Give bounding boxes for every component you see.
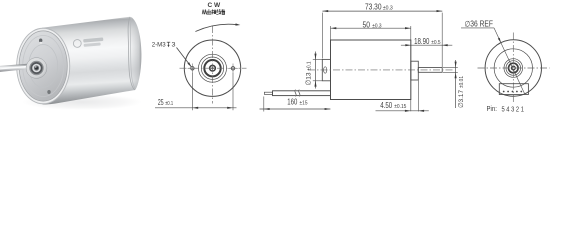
svg-text:C W: C W (208, 3, 221, 9)
svg-text:18.90: 18.90 (414, 37, 430, 46)
svg-text:50: 50 (363, 21, 371, 30)
svg-text:±0.3: ±0.3 (372, 24, 381, 30)
svg-text:±0.01: ±0.01 (459, 76, 465, 88)
svg-text:±0.5: ±0.5 (431, 40, 440, 46)
svg-text:3: 3 (172, 42, 176, 49)
svg-text:25: 25 (158, 98, 164, 107)
svg-text:∅36 REF: ∅36 REF (465, 20, 493, 29)
svg-text:160: 160 (287, 98, 297, 107)
svg-text:73.30: 73.30 (365, 2, 382, 11)
svg-text:∅3.17: ∅3.17 (458, 90, 465, 108)
svg-text:±0.3: ±0.3 (383, 5, 393, 11)
svg-text:±0.1: ±0.1 (306, 61, 312, 70)
svg-text:Pin:: Pin: (487, 106, 497, 113)
svg-text:±15: ±15 (300, 101, 308, 107)
svg-text:4.50: 4.50 (380, 101, 392, 110)
svg-text:5 4 3 2 1: 5 4 3 2 1 (502, 106, 524, 113)
svg-text:∅13: ∅13 (305, 72, 312, 85)
svg-text:±0.1: ±0.1 (165, 101, 173, 107)
svg-text:±0.15: ±0.15 (394, 104, 406, 110)
svg-text:2-M3: 2-M3 (152, 42, 166, 49)
